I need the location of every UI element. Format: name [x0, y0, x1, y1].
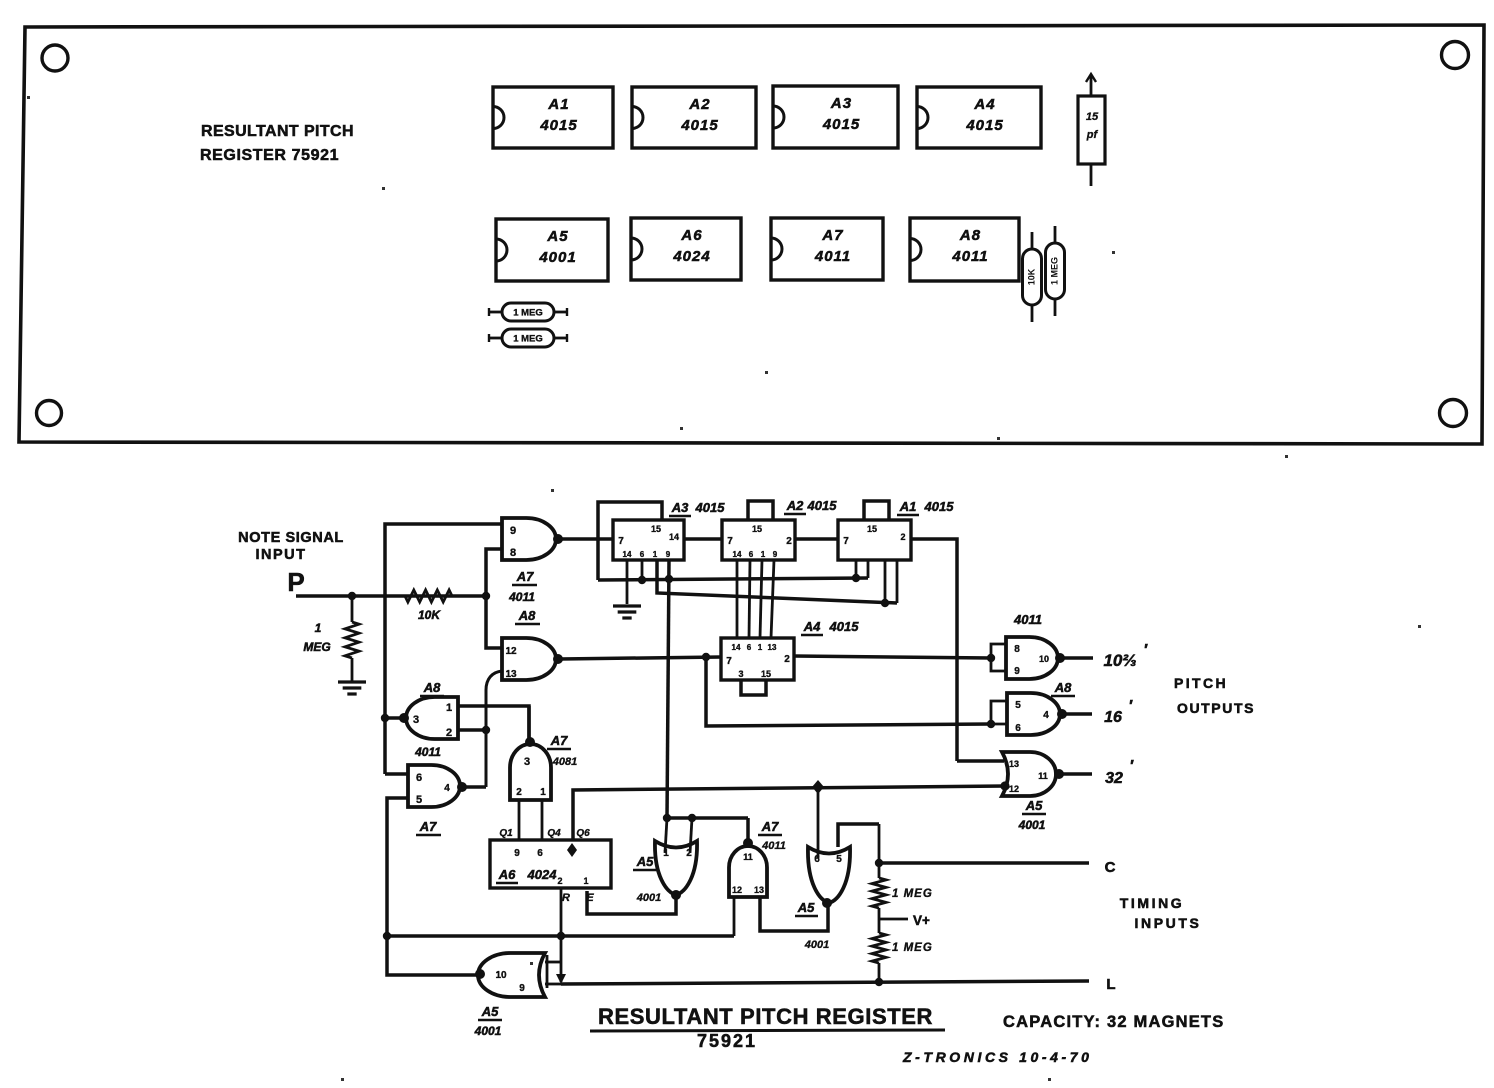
- svg-text:6: 6: [640, 550, 645, 559]
- svg-text:9: 9: [1014, 666, 1020, 677]
- svg-text:A1: A1: [899, 499, 917, 514]
- wire A3 pin6 to H1: [641, 560, 644, 580]
- svg-text:A5: A5: [481, 1004, 499, 1019]
- gate U-A8d 4011 NAND (5,6 out 4): [1007, 693, 1060, 735]
- wire A8b pin1 to A7-4081 output: [458, 706, 529, 742]
- svg-text:4001: 4001: [474, 1024, 502, 1038]
- svg-text:1 MEG: 1 MEG: [892, 942, 933, 954]
- wire gate A8a output to A4 pin7: [560, 657, 721, 659]
- svg-text:2: 2: [446, 727, 452, 739]
- svg-text:A4: A4: [973, 96, 995, 113]
- svg-text:A6: A6: [680, 227, 702, 244]
- svg-text:A8: A8: [518, 608, 536, 623]
- svg-text:1: 1: [663, 848, 669, 859]
- wire A3 pin1 to H2: [657, 560, 897, 603]
- svg-text:INPUT: INPUT: [256, 547, 307, 563]
- gate U-A7a 4011 NAND (pins 9,8 out 10): [502, 518, 556, 560]
- svg-text:4015: 4015: [695, 500, 726, 515]
- wires AND inputs to A6 counter: [518, 800, 521, 840]
- svg-text:4011: 4011: [508, 590, 535, 604]
- PCB board outline 75921: [19, 25, 1484, 444]
- svg-text:A8: A8: [1054, 680, 1072, 695]
- svg-text:15: 15: [1086, 111, 1099, 123]
- svg-text:2: 2: [557, 876, 562, 886]
- svg-text:4024: 4024: [527, 867, 558, 882]
- svg-text:CAPACITY: 32 MAGNETS: CAPACITY: 32 MAGNETS: [1003, 1013, 1224, 1031]
- svg-text:INPUTS: INPUTS: [1135, 915, 1202, 931]
- svg-text:A7: A7: [419, 819, 437, 834]
- svg-text:1: 1: [583, 876, 588, 886]
- svg-text:6: 6: [1015, 723, 1021, 734]
- svg-text:5: 5: [836, 854, 842, 865]
- svg-text:A5: A5: [797, 900, 815, 915]
- timing input C: [879, 861, 1089, 865]
- shift register A2 4015: [722, 520, 795, 560]
- mounting hole top-right: [1442, 42, 1469, 69]
- svg-text:NOTE SIGNAL: NOTE SIGNAL: [238, 530, 344, 546]
- svg-text:2: 2: [786, 536, 792, 547]
- svg-text:1: 1: [540, 787, 546, 798]
- svg-text:′: ′: [1129, 698, 1133, 715]
- shift register A1 4015: [838, 520, 911, 560]
- svg-text:′: ′: [1130, 758, 1134, 775]
- bus A5d output (y936): [387, 934, 734, 938]
- resistor 1 MEG to ground: [351, 596, 354, 622]
- bus H1: [598, 578, 868, 580]
- svg-text:1 MEG: 1 MEG: [1049, 257, 1059, 285]
- svg-text:12: 12: [505, 646, 517, 657]
- gate U-A5a 4001 NOR down: [655, 841, 697, 895]
- resistor 10K: [405, 590, 452, 602]
- wire S-curve pin13 to A7b output net: [486, 671, 502, 787]
- svg-text:4001: 4001: [538, 249, 576, 266]
- wire gate A7a output to A3 pin7: [560, 537, 613, 541]
- mounting hole bottom-right: [1440, 400, 1467, 427]
- svg-text:A5: A5: [546, 228, 568, 245]
- resistor 1 MEG vertical: [1046, 243, 1065, 299]
- svg-text:8: 8: [510, 547, 516, 559]
- svg-text:9: 9: [773, 550, 778, 559]
- wire A7d output up to y818 bus: [746, 818, 750, 843]
- svg-text:13: 13: [768, 643, 777, 652]
- wire A4 bottom hat: [741, 680, 766, 695]
- resistor 1 MEG horizontal #1: [502, 303, 554, 321]
- shift register A3 4015: [613, 520, 684, 560]
- svg-text:4015: 4015: [924, 499, 955, 514]
- wire A3 pin14 to ground: [626, 560, 629, 604]
- V+ tap: [879, 918, 908, 921]
- svg-text:RESULTANT PITCH: RESULTANT PITCH: [201, 123, 354, 140]
- svg-text:4011: 4011: [1013, 612, 1042, 627]
- svg-text:32: 32: [1105, 770, 1123, 787]
- svg-text:6: 6: [747, 643, 752, 652]
- wire A7b inputs from V1/V2: [385, 772, 408, 776]
- svg-text:16: 16: [1104, 709, 1122, 726]
- svg-text:14: 14: [623, 550, 632, 559]
- svg-text:Q4: Q4: [547, 828, 561, 839]
- svg-text:1: 1: [315, 621, 322, 635]
- wire A6 pin1 from OR1 output: [587, 891, 676, 914]
- svg-text:A7: A7: [516, 569, 534, 584]
- svg-text:9: 9: [510, 525, 516, 537]
- resistor chain 1MEG / 1MEG with V+: [878, 824, 881, 878]
- svg-text:14: 14: [733, 550, 742, 559]
- wire OR2 left input from y786 bus: [817, 786, 820, 858]
- svg-text:7: 7: [726, 656, 732, 667]
- wire gate A7a lower input down to P net: [486, 549, 502, 648]
- shift register A4 4015: [721, 638, 794, 680]
- svg-text:4011: 4011: [814, 248, 851, 265]
- svg-text:4011: 4011: [414, 745, 441, 759]
- svg-text:8: 8: [1014, 644, 1020, 655]
- svg-text:A8: A8: [423, 680, 441, 695]
- wire OR2 right input to C net: [838, 824, 879, 847]
- svg-text:13: 13: [754, 885, 764, 895]
- svg-text:15: 15: [651, 524, 661, 534]
- wire A3 loop pin15 to H1: [598, 502, 662, 580]
- svg-text:A1: A1: [547, 96, 569, 113]
- svg-text:6: 6: [416, 772, 422, 784]
- svg-text:1 MEG: 1 MEG: [892, 888, 933, 900]
- svg-text:1: 1: [446, 702, 452, 714]
- counter A6 4024: [490, 840, 611, 888]
- gate U-A5b 4001 NOR down: [808, 847, 850, 903]
- wire Q6 to y786 bus: [573, 786, 1005, 840]
- svg-text:RESULTANT PITCH REGISTER: RESULTANT PITCH REGISTER: [598, 1004, 933, 1029]
- svg-text:4024: 4024: [672, 248, 710, 265]
- mounting hole top-left: [42, 45, 68, 71]
- svg-text:14: 14: [732, 643, 741, 652]
- svg-text:A3: A3: [830, 95, 852, 112]
- wires A2 pins down to A4: [736, 560, 739, 638]
- svg-text:Q1: Q1: [499, 828, 513, 839]
- svg-text:1: 1: [761, 550, 766, 559]
- svg-text:9: 9: [666, 550, 671, 559]
- svg-text:A2: A2: [786, 498, 804, 513]
- svg-text:15: 15: [867, 524, 877, 534]
- svg-text:4015: 4015: [539, 117, 577, 134]
- svg-text:5: 5: [416, 794, 422, 806]
- svg-text:4001: 4001: [636, 892, 661, 904]
- svg-text:75921: 75921: [697, 1031, 757, 1051]
- IC A8 4011: [910, 218, 1019, 281]
- gate U-A5d 4001 NOR mirrored (output left): [478, 953, 545, 997]
- svg-text:REGISTER 75921: REGISTER 75921: [200, 147, 339, 164]
- svg-text:2: 2: [516, 787, 522, 798]
- svg-text:2: 2: [784, 654, 790, 665]
- gate U-A7c 4081 AND dome (pins 2,1 out 3): [510, 744, 551, 800]
- wire AND output up: [527, 706, 531, 742]
- wire A2 top hat: [748, 501, 773, 520]
- mounting hole bottom-left: [37, 401, 62, 426]
- wire A7b output up to pin13 net: [464, 785, 486, 789]
- gate U-A8a 4011 NAND (pins 12,13 out 11): [502, 638, 556, 680]
- svg-text:11: 11: [1038, 771, 1048, 781]
- svg-text:A7: A7: [821, 227, 843, 244]
- capacitor 15pF on board: [1090, 75, 1093, 96]
- svg-text:1 MEG: 1 MEG: [513, 334, 543, 345]
- svg-text:3: 3: [413, 714, 419, 726]
- svg-text:4015: 4015: [822, 116, 860, 133]
- svg-text:L: L: [1106, 976, 1115, 993]
- svg-text:A6: A6: [498, 867, 516, 882]
- svg-text:A8: A8: [959, 227, 981, 244]
- svg-text:4015: 4015: [829, 619, 860, 634]
- svg-text:A7: A7: [761, 819, 779, 834]
- svg-text:2: 2: [686, 848, 692, 859]
- svg-text:Q6: Q6: [576, 828, 590, 839]
- svg-text:′: ′: [1144, 642, 1148, 659]
- svg-text:10K: 10K: [1026, 268, 1036, 285]
- wire A3 pin9 long vertical: [667, 560, 669, 818]
- wires A1 pins to buses: [855, 560, 858, 578]
- svg-text:12: 12: [732, 885, 742, 895]
- svg-text:4015: 4015: [680, 117, 718, 134]
- svg-text:4011: 4011: [951, 248, 988, 265]
- gate U-A8c 4011 NAND (8,9 out 10): [1006, 637, 1058, 679]
- svg-text:10K: 10K: [418, 608, 441, 622]
- input bracket gate 10-2/3: [991, 644, 1006, 671]
- IC A6 4024: [631, 218, 741, 280]
- svg-text:4011: 4011: [761, 840, 786, 852]
- wire A4 output right to 10-2/3 gate: [794, 656, 991, 658]
- svg-text:3: 3: [738, 669, 743, 679]
- gate U-A8b 4011 NAND mirrored (pins 1,2 out 3): [406, 697, 458, 739]
- IC A4 4015: [917, 87, 1041, 148]
- gate U-A7b 4011 NAND (pins 6,5 out 4): [408, 765, 460, 807]
- wire A5d input bracket to L net: [545, 961, 561, 964]
- wire A1 top hat: [864, 501, 889, 520]
- wire P input horizontal: [296, 594, 486, 598]
- ground below 1 MEG: [338, 680, 366, 683]
- svg-text:OUTPUTS: OUTPUTS: [1177, 700, 1255, 716]
- svg-text:A5: A5: [1025, 798, 1043, 813]
- IC A1 4015: [493, 87, 613, 148]
- svg-text:1: 1: [758, 643, 763, 652]
- svg-text:A5: A5: [636, 854, 654, 869]
- svg-text:C: C: [1105, 859, 1116, 876]
- svg-text:PITCH: PITCH: [1174, 675, 1228, 691]
- svg-text:11: 11: [743, 852, 753, 862]
- svg-text:15: 15: [761, 669, 771, 679]
- ground below A3: [613, 604, 641, 607]
- svg-text:A3: A3: [671, 500, 689, 515]
- svg-text:MEG: MEG: [303, 640, 330, 654]
- svg-text:4015: 4015: [807, 498, 838, 513]
- svg-text:4015: 4015: [965, 117, 1003, 134]
- svg-text:3: 3: [524, 756, 530, 768]
- svg-text:1: 1: [653, 550, 658, 559]
- svg-text:pf: pf: [1086, 129, 1099, 141]
- svg-text:A7: A7: [550, 733, 568, 748]
- svg-text:13: 13: [505, 669, 517, 680]
- bus y818 with taps: [667, 816, 748, 820]
- svg-text:4: 4: [1043, 710, 1049, 721]
- wire feedback vertical V1: [385, 524, 502, 774]
- svg-text:2: 2: [900, 532, 905, 542]
- wire A3-A2 link: [684, 537, 722, 541]
- svg-text:12: 12: [1009, 784, 1019, 794]
- wire A7d pin12 down to y936 bus: [733, 897, 736, 936]
- wire A2-A1 link: [795, 537, 838, 541]
- svg-text:15: 15: [752, 524, 762, 534]
- svg-text:A2: A2: [688, 96, 710, 113]
- svg-text:7: 7: [843, 536, 849, 547]
- svg-text:P: P: [287, 567, 304, 597]
- svg-text:1 MEG: 1 MEG: [513, 308, 543, 319]
- svg-text:R: R: [562, 892, 570, 904]
- svg-text:9: 9: [519, 983, 525, 994]
- gate U-A5c 4001 NOR (13,12 out 11): [1002, 752, 1056, 796]
- svg-text:14: 14: [669, 532, 679, 542]
- wire A6 reset vertical to L line: [560, 888, 563, 982]
- svg-text:10: 10: [1039, 654, 1049, 664]
- svg-text:9: 9: [514, 848, 520, 859]
- svg-text:10⅔: 10⅔: [1103, 651, 1136, 670]
- wire A8b output to V1: [385, 716, 402, 720]
- wire junction down to lower bus: [706, 657, 991, 726]
- svg-text:V+: V+: [913, 913, 930, 928]
- svg-text:6: 6: [749, 550, 754, 559]
- svg-text:4: 4: [444, 783, 450, 794]
- svg-text:10: 10: [495, 970, 507, 981]
- wire output 10-2/3: [1062, 656, 1093, 660]
- svg-text:Z-TRONICS 10-4-70: Z-TRONICS 10-4-70: [902, 1049, 1093, 1065]
- wire A1 output right and down: [911, 539, 957, 761]
- svg-text:6: 6: [537, 848, 543, 859]
- IC A7 4011: [771, 218, 883, 280]
- timing input L: [561, 981, 1089, 984]
- svg-text:4001: 4001: [804, 939, 829, 951]
- gate U-A7d 4011 NAND dome (out 11 pins 12,13): [729, 846, 767, 897]
- svg-text:5: 5: [1015, 700, 1021, 711]
- svg-text:4001: 4001: [1018, 818, 1046, 832]
- wire A1 out into gate 32 top input: [957, 759, 1004, 763]
- IC A3 4015: [773, 86, 898, 148]
- svg-text:7: 7: [618, 536, 624, 547]
- svg-text:7: 7: [727, 536, 733, 547]
- resistor 10K vertical: [1023, 249, 1042, 305]
- svg-text:13: 13: [1009, 759, 1019, 769]
- IC A2 4015: [632, 87, 756, 148]
- resistor 1 MEG horizontal #2: [502, 329, 554, 347]
- wire A7d pin13 to OR2 output: [760, 897, 828, 931]
- IC A5 4001: [496, 219, 608, 281]
- svg-text:TIMING: TIMING: [1120, 895, 1185, 911]
- svg-text:A4: A4: [803, 619, 821, 634]
- svg-text:4081: 4081: [552, 756, 577, 768]
- wire A8b pin2 to net: [458, 728, 486, 732]
